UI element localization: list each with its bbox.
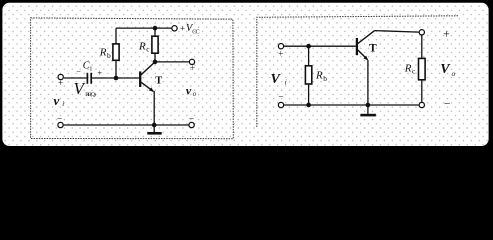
ground (right circuit)	[360, 105, 376, 115]
minus sign above bottom-left terminal	[57, 115, 62, 125]
svg-text:−: −	[189, 115, 194, 125]
minus sign right of output (right circuit)	[444, 98, 451, 110]
svg-text:1: 1	[89, 65, 92, 72]
svg-text:+: +	[278, 49, 283, 59]
input terminal (right circuit, top)	[278, 44, 283, 49]
svg-text:−: −	[57, 115, 62, 125]
svg-text:T: T	[155, 75, 162, 86]
svg-text:BE(Q): BE(Q)	[85, 91, 96, 98]
plus sign under output terminal	[190, 63, 195, 73]
plus sign under input terminal	[58, 78, 63, 88]
wire capacitor to base	[91, 77, 139, 79]
wire bottom rail (left circuit)	[64, 124, 189, 126]
svg-text:o: o	[452, 69, 456, 78]
output bottom terminal (right circuit)	[419, 102, 424, 107]
svg-text:+: +	[180, 23, 185, 33]
resistor Rb (left circuit)	[113, 28, 119, 78]
svg-text:−: −	[76, 66, 81, 76]
svg-text:i: i	[285, 77, 287, 86]
wire emitter down to bottom rail	[153, 91, 155, 125]
svg-text:R: R	[138, 40, 146, 52]
wire input to base (right circuit)	[284, 45, 356, 47]
label Rb (right circuit)	[315, 70, 327, 83]
dashed enclosure box (right circuit)	[257, 16, 458, 128]
svg-text:b: b	[107, 51, 111, 60]
label +Vcc	[180, 23, 200, 36]
node base / Rb junction	[114, 76, 119, 81]
label T (right circuit)	[369, 43, 377, 55]
svg-text:b: b	[323, 74, 327, 83]
ground (left circuit)	[147, 125, 161, 133]
wire collector rail (right circuit)	[375, 31, 419, 32]
svg-text:−: −	[278, 93, 283, 103]
wire bottom rail (right circuit)	[284, 104, 419, 106]
minus polarity mark left of C1	[76, 66, 81, 76]
svg-text:o: o	[193, 90, 197, 98]
output top terminal (right circuit)	[419, 30, 424, 35]
plus polarity mark right of C1	[97, 68, 102, 78]
Vcc terminal	[172, 26, 177, 31]
label Rc (left circuit)	[138, 40, 150, 53]
node collector junction	[153, 60, 158, 65]
svg-text:R: R	[404, 63, 412, 75]
label v_i (left circuit)	[54, 93, 65, 108]
svg-text:v: v	[54, 93, 60, 108]
transistor T (right circuit)	[357, 31, 375, 61]
label V_BE(Q)	[74, 79, 96, 98]
resistor Rc (left circuit)	[152, 28, 158, 62]
output terminal (left circuit, top)	[189, 59, 194, 64]
capacitor C1	[87, 73, 91, 84]
svg-text:v: v	[186, 83, 192, 97]
svg-text:+: +	[190, 63, 195, 73]
bottom-left terminal (left circuit)	[58, 122, 63, 127]
svg-text:+: +	[443, 26, 450, 40]
transistor T (left circuit)	[140, 63, 154, 92]
minus sign above bottom-right terminal	[189, 115, 194, 125]
wire collector to output terminal	[155, 61, 189, 63]
node Rb junction (right circuit)	[306, 44, 311, 49]
wire emitter down (right circuit)	[367, 60, 369, 105]
node emitter / ground junction	[152, 123, 157, 128]
label Rb (left circuit)	[99, 47, 111, 60]
bottom-left terminal (right circuit)	[278, 102, 283, 107]
svg-text:V: V	[440, 62, 451, 77]
svg-text:R: R	[99, 47, 107, 59]
label V_o (right circuit)	[440, 62, 455, 78]
svg-text:T: T	[369, 43, 377, 55]
dashed enclosure box (left circuit)	[31, 18, 234, 139]
svg-text:i: i	[62, 100, 64, 108]
svg-text:−: −	[444, 98, 451, 110]
wire input to capacitor C1	[64, 77, 87, 79]
svg-text:+: +	[58, 78, 63, 88]
label v_o (left circuit)	[186, 83, 197, 98]
input terminal (left circuit, top)	[58, 74, 63, 79]
bottom-right terminal (left circuit)	[189, 122, 194, 127]
svg-text:CC: CC	[192, 30, 200, 36]
label Rc (right circuit)	[404, 63, 416, 76]
label V_i (right circuit)	[271, 72, 287, 87]
node Rb bottom junction (right circuit)	[306, 103, 311, 108]
minus sign above right bottom-left terminal	[278, 93, 283, 103]
svg-text:R: R	[315, 70, 323, 82]
node top rail / Rc junction	[153, 26, 158, 31]
label T (left circuit)	[155, 75, 162, 86]
node emitter / ground junction (right circuit)	[366, 103, 371, 108]
plus sign under right input terminal	[278, 49, 283, 59]
label C1	[83, 61, 93, 73]
resistor Rc (right circuit)	[419, 35, 426, 102]
wire top rail to Vcc	[116, 27, 171, 29]
plus sign right of output (right circuit)	[443, 26, 450, 40]
svg-text:+: +	[97, 68, 102, 78]
resistor Rb (right circuit)	[305, 46, 311, 105]
